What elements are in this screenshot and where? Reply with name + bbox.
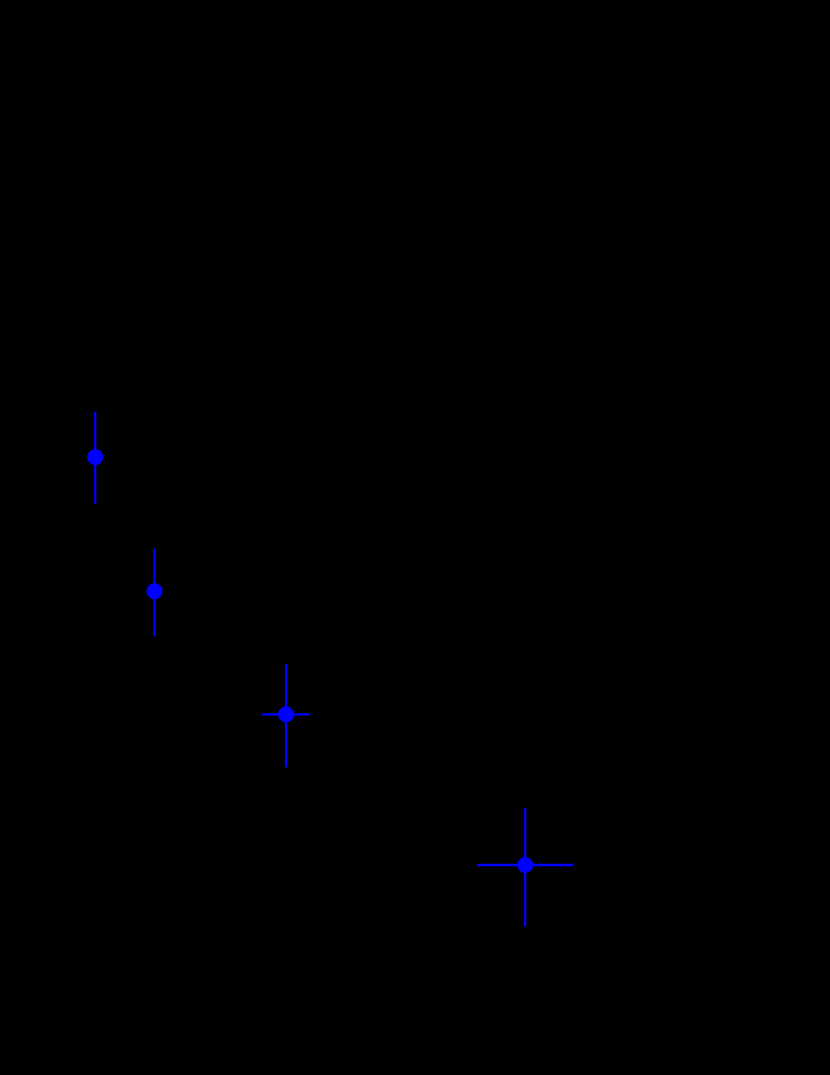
data point 2 vertical error bar — [153, 549, 155, 636]
data point 2 marker — [147, 583, 163, 599]
data point 4 marker — [517, 857, 533, 873]
data point 1 vertical error bar — [94, 412, 96, 504]
data point 3 vertical error bar — [285, 664, 287, 768]
data point 4 horizontal error bar — [477, 864, 573, 866]
data point 4 vertical error bar — [524, 808, 526, 927]
data point 1 marker — [87, 449, 103, 465]
data point 3 horizontal error bar — [262, 713, 310, 715]
data point 3 marker — [278, 706, 294, 722]
